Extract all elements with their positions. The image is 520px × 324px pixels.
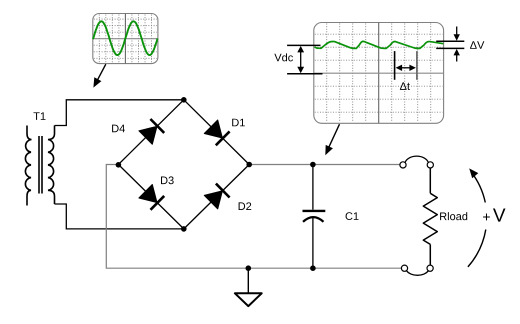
diode D4 [139,119,164,144]
delta t measurement annotation [395,51,417,90]
pointer arrow from sine scope to input node [93,64,105,87]
wire: positive output rail (gray) [249,164,400,166]
terminal circle top-right [427,162,433,168]
wire: secondary top to bridge top node [55,100,184,126]
oscilloscope screen showing AC input sine [93,14,158,64]
Vdc measurement annotation [274,45,322,73]
ground symbol [235,268,262,306]
wire: secondary bottom to bridge bottom node [55,204,184,229]
output polarity arc +V [468,168,506,267]
junction node: C1 bottom [310,265,316,271]
junction node: bridge bottom [181,226,187,232]
pointer arrow from ripple scope to output node [325,124,339,155]
resistor Rload [423,168,437,265]
bridge diamond wires [118,100,249,229]
junction node: bridge left [116,162,122,168]
junction node: bridge right [246,162,252,168]
diode D3 [139,185,164,210]
diode D2 [204,184,229,209]
terminal circle bottom-left [401,265,407,271]
junction node: bridge top [181,97,187,103]
oscilloscope screen showing filtered DC ripple [314,23,444,124]
junction node: C1 top [310,162,316,168]
transformer T1 [25,126,54,206]
junction node: ground tap [246,265,252,271]
terminal plug arc top [405,156,428,162]
delta V measurement annotation [436,27,484,62]
terminal circle top-left [400,162,406,168]
diode D1 [204,120,229,145]
terminal circle bottom-right [427,265,433,271]
terminal plug arc bottom [407,271,429,276]
capacitor C1 [303,165,326,269]
wire: bridge negative output to bottom rail (gray) [106,165,401,269]
